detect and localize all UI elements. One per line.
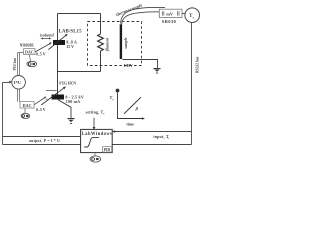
arrow isolated double-head (42, 37, 49, 39)
icon ellipse below DAC2 (24, 108, 26, 113)
arrow setting into LabWindows (93, 118, 95, 128)
node Ts circle (185, 8, 200, 23)
curve sigmoid (84, 138, 99, 147)
svg-text:I*U: I*U (14, 80, 22, 85)
wire: supply loop bottom edge (58, 71, 101, 73)
svg-text:output, P = I * U: output, P = I * U (29, 139, 60, 143)
wire: supply loop left edge upper (57, 14, 59, 41)
icon ellipse below LabWindows (94, 153, 96, 156)
wire: bus to DAC1 (18, 52, 24, 54)
svg-text:mV: mV (166, 11, 174, 16)
svg-text:0..5 V: 0..5 V (36, 108, 46, 112)
svg-text:FUG HCN: FUG HCN (59, 81, 76, 85)
wire: RS232 bus right vertical (191, 22, 193, 144)
svg-text:isolated: isolated (40, 33, 55, 38)
label minus lead (46, 90, 57, 92)
svg-text:0..5 V: 0..5 V (36, 53, 46, 57)
wire: output line (3, 136, 81, 138)
svg-text:PCI bus: PCI bus (13, 57, 17, 70)
svg-text:PID: PID (104, 148, 111, 152)
wire: DAC1 to supply1 (35, 44, 49, 52)
svg-text:0..8 A: 0..8 A (66, 41, 77, 45)
svg-text:15 V: 15 V (66, 45, 74, 49)
wire: bottom edge (3, 144, 192, 146)
graph axes (118, 91, 143, 119)
svg-text:SR630: SR630 (162, 19, 177, 24)
svg-text:setting, T: setting, T (86, 110, 104, 115)
wire: loop to supply2 (57, 72, 59, 95)
DAC2 box (20, 102, 34, 108)
supply U2 HV black box (52, 95, 65, 100)
PID box (103, 147, 112, 152)
svg-text:DAC: DAC (25, 49, 34, 54)
bus PCI double line lower (18, 89, 20, 101)
graph dot (116, 89, 120, 93)
svg-text:LabWindows: LabWindows (82, 132, 113, 137)
svg-text:filament: filament (105, 37, 109, 51)
multiplier I*U circle (12, 76, 26, 90)
wire: sample to ground (122, 60, 157, 69)
ground (sample) (153, 68, 160, 70)
svg-text:time: time (126, 121, 134, 126)
wire: left edge (2, 83, 4, 145)
ground (supply2) (67, 118, 74, 120)
wire: supply loop top edge (58, 13, 101, 15)
svg-text:+: + (49, 40, 52, 45)
sample bar (120, 24, 122, 59)
graph ramp line (124, 97, 141, 114)
wire: arrow into I*U circle (3, 82, 10, 84)
svg-text:UHV: UHV (124, 63, 133, 68)
meter SR630 box (159, 9, 182, 17)
chamber UHV dashed box (88, 22, 142, 66)
svg-text:100 mA: 100 mA (66, 99, 80, 104)
svg-text:DAC: DAC (23, 103, 32, 108)
wire: supply loop left edge lower (57, 45, 59, 72)
wire: DAC2 to supply2 (34, 98, 44, 105)
wire: input Ts line (112, 131, 191, 133)
resistor filament (98, 34, 104, 51)
arrow variable (supply1) (48, 36, 65, 50)
svg-text:LAB/SL15: LAB/SL15 (59, 30, 83, 35)
icon ellipse below DAC1 (29, 55, 30, 62)
svg-text:RS232 bus: RS232 bus (196, 56, 200, 73)
arrow variable (supply2) (41, 88, 63, 105)
bus PCI double line upper (18, 53, 20, 76)
svg-text:sample: sample (124, 37, 128, 50)
wire: supply loop right edge segments (100, 14, 102, 72)
svg-text:NI6020E: NI6020E (20, 44, 35, 48)
computer LabWindows box (81, 129, 113, 152)
wire: supply2 to ground (58, 100, 71, 119)
DAC1 box (24, 49, 35, 55)
wire: meter to Ts circle (182, 13, 185, 15)
thermocouple wire upper (121, 7, 165, 23)
supply U1 LAB/SL15 black box (53, 40, 65, 45)
svg-text:input, T: input, T (153, 134, 168, 139)
thermocouple wire lower (122, 12, 160, 25)
